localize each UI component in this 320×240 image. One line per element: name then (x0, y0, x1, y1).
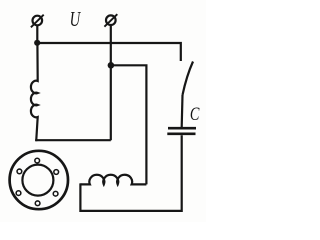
switch S1 blade (183, 62, 194, 96)
wire junction B to L2 right end (111, 65, 146, 184)
motor frame face outer (10, 151, 68, 209)
wire T1 stem (36, 25, 38, 43)
motor bolt hole 4 (35, 201, 40, 206)
motor bolt hole 5 (16, 191, 21, 196)
main winding L1 (31, 43, 38, 141)
terminal T2 (104, 14, 117, 27)
motor bolt hole 1 (35, 158, 40, 163)
auxiliary winding L2 (80, 175, 146, 185)
capacitor C plates (167, 128, 196, 134)
wire T2 vertical (110, 25, 112, 141)
motor bolt hole 3 (53, 191, 58, 196)
svg-text:U: U (70, 7, 82, 30)
svg-text:C: C (190, 103, 200, 124)
motor bolt hole 6 (17, 169, 22, 174)
wire capacitor top to switch blade (181, 95, 184, 127)
junction B (108, 62, 115, 69)
terminal T1 (31, 15, 44, 28)
motor bolt hole 2 (54, 170, 59, 175)
wire L1 bottom to T2 vertical (35, 139, 111, 141)
motor frame face inner (22, 165, 53, 196)
junction A (34, 40, 40, 46)
wire L2 left end down, bottom run, up to capacitor (80, 135, 181, 211)
wire bus to switch (36, 43, 181, 61)
